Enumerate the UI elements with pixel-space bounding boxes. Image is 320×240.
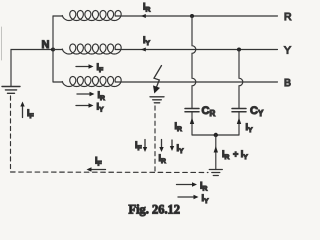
current arrow IF (bottom return, pointing left)	[87, 167, 106, 171]
svg-text:Fig. 26.12: Fig. 26.12	[129, 203, 181, 217]
wire: junction to earth with IR+IY up arrowhead	[215, 135, 217, 170]
wire: capacitor return connector	[192, 134, 239, 136]
wire: Y phase line	[115, 49, 277, 51]
wire: B phase line	[115, 81, 277, 83]
node: Y line tap to CY	[237, 48, 241, 52]
svg-text:B: B	[284, 77, 291, 89]
wire: R tap vertical with hops over Y and B	[192, 16, 196, 109]
wire: dashed fault-current return (left vertical)	[10, 96, 12, 172]
node: capacitor return junction	[214, 133, 218, 137]
wire: dashed fault path below fault earth	[154, 106, 156, 172]
node: R line tap to CR	[190, 14, 194, 18]
wire: R phase line	[115, 15, 277, 17]
svg-text:N: N	[42, 39, 50, 51]
current arrow IY down	[170, 140, 174, 151]
current arrowhead on Y line (IY toward coil)	[141, 48, 146, 52]
current arrow IR down (right of dashed)	[159, 140, 163, 153]
current arrow IY (through B coil region)	[76, 103, 94, 107]
inductor: arc suppression coil, B phase	[53, 81, 62, 83]
scan edge artifact (faint)	[1, 27, 3, 60]
ground: fault point earth	[150, 97, 164, 103]
legend arrow IY	[178, 195, 199, 199]
fault: lightning arrow striking B line to earth	[153, 66, 162, 94]
ground: left earth of neutral	[2, 87, 20, 94]
wire: dashed fault-current return (bottom horizontal)	[11, 171, 209, 174]
svg-text:R: R	[284, 11, 292, 23]
legend arrow IR	[177, 182, 198, 186]
wire: below CY with IY up arrowhead	[238, 112, 240, 135]
ground: capacitor return earth	[209, 170, 222, 176]
wire: Y tap vertical with hop over B	[239, 50, 243, 109]
node N	[51, 48, 55, 52]
capacitor CY	[232, 109, 246, 112]
inductor: arc suppression coil, R phase	[53, 15, 62, 17]
current arrow IR (through B coil region)	[77, 92, 95, 96]
wire: neutral N to left	[11, 50, 53, 87]
svg-text:Y: Y	[284, 45, 291, 57]
current arrow IF (through Y coil region)	[76, 64, 94, 68]
current arrow IF up (beside left dashed path)	[20, 102, 24, 118]
capacitor CR	[185, 109, 199, 112]
inductor: arc suppression coil, Y phase	[53, 49, 62, 51]
wire: neutral bus vertical	[52, 16, 54, 82]
current arrowhead on R line (IR toward coil)	[141, 14, 146, 18]
wire: below CR with IR up arrowhead	[191, 112, 193, 135]
